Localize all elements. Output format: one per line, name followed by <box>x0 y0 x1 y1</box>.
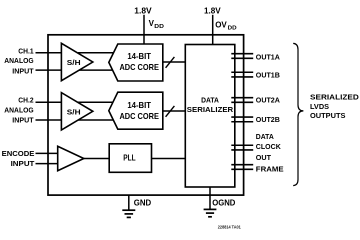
svg-text:228814 TA01: 228814 TA01 <box>218 224 242 229</box>
main block outline <box>48 35 244 195</box>
svg-text:S/H: S/H <box>67 58 81 67</box>
LVDS pair FRAME <box>231 165 253 170</box>
PLL block <box>109 144 151 173</box>
svg-text:1.8V: 1.8V <box>204 6 221 15</box>
OVDD supply wire <box>212 15 214 45</box>
bus slash ADC2 <box>166 106 175 117</box>
svg-text:PLL: PLL <box>123 154 135 163</box>
svg-text:INPUT: INPUT <box>11 161 36 168</box>
svg-text:INPUT: INPUT <box>12 117 34 124</box>
wire clock buffer to PLL <box>78 158 109 160</box>
svg-text:CLOCK: CLOCK <box>256 144 281 151</box>
svg-text:OUT2A: OUT2A <box>256 98 280 105</box>
svg-text:OV: OV <box>215 21 227 30</box>
svg-text:CH.1: CH.1 <box>18 48 33 55</box>
LVDS pair OUT1B <box>231 72 253 77</box>
wire CH.1 input - <box>36 69 64 71</box>
svg-text:OUT2B: OUT2B <box>256 117 280 124</box>
wire S/H1 to ADC1 - <box>78 69 114 71</box>
ADC core 2 (14-BIT ADC CORE) <box>109 92 163 129</box>
svg-text:GND: GND <box>134 199 152 208</box>
ground symbol GND <box>122 210 135 217</box>
S/H amplifier 1 <box>61 43 92 80</box>
LVDS pair OUT2A <box>231 98 253 103</box>
svg-text:FRAME: FRAME <box>256 167 284 174</box>
S/H amplifier 2 <box>61 93 92 130</box>
wire ENCODE input bottom <box>36 163 60 165</box>
svg-text:LVDS: LVDS <box>310 104 329 111</box>
svg-text:ANALOG: ANALOG <box>4 107 34 114</box>
svg-text:INPUT: INPUT <box>12 68 34 75</box>
svg-text:14-BIT: 14-BIT <box>127 51 151 61</box>
svg-text:OUTPUTS: OUTPUTS <box>310 113 346 120</box>
data serializer block <box>185 45 235 188</box>
svg-text:ADC CORE: ADC CORE <box>119 62 159 72</box>
LVDS pair CLOCK <box>231 145 253 150</box>
svg-text:S/H: S/H <box>67 107 81 116</box>
GND pin wire <box>128 195 130 210</box>
svg-text:OUT1B: OUT1B <box>256 72 280 79</box>
OGND pin wire <box>209 187 211 209</box>
svg-text:OGND: OGND <box>212 199 235 208</box>
svg-text:OUT: OUT <box>256 155 272 162</box>
label CH.1 ANALOG INPUT <box>4 48 34 75</box>
LVDS pair OUT2B <box>231 117 253 122</box>
wire CH.2 input - <box>36 119 64 121</box>
svg-text:DD: DD <box>154 24 164 30</box>
wire S/H2 to ADC2 - <box>78 119 114 121</box>
ADC core 1 (14-BIT ADC CORE) <box>109 44 163 81</box>
label CH.2 ANALOG INPUT <box>4 97 34 124</box>
svg-text:OUT1A: OUT1A <box>256 55 280 62</box>
wire ENCODE input top <box>36 152 60 154</box>
bus wire ADC1 to serializer <box>163 61 186 63</box>
label ENCODE INPUT <box>2 151 36 168</box>
svg-text:14-BIT: 14-BIT <box>127 100 151 110</box>
ground symbol OGND <box>204 209 217 216</box>
svg-text:SERIALIZED: SERIALIZED <box>310 95 359 102</box>
label DATA CLOCK OUT <box>256 134 281 162</box>
wire S/H2 to ADC2 + <box>78 101 114 103</box>
svg-text:ENCODE: ENCODE <box>2 151 35 158</box>
bus slash ADC1 <box>166 57 175 68</box>
wire S/H1 to ADC1 + <box>78 52 114 54</box>
wire CH.2 input + <box>36 101 64 103</box>
VDD supply wire <box>143 15 145 44</box>
brace for serialized LVDS outputs <box>293 43 303 185</box>
label OVDD <box>215 21 236 32</box>
svg-text:DATA: DATA <box>256 134 274 141</box>
clock buffer amplifier <box>58 146 84 170</box>
svg-text:ANALOG: ANALOG <box>4 58 34 65</box>
svg-text:DD: DD <box>228 26 237 32</box>
bus wire ADC2 to serializer <box>163 110 186 112</box>
svg-text:SERIALIZER: SERIALIZER <box>187 105 234 114</box>
svg-text:DATA: DATA <box>201 96 219 105</box>
label VDD <box>149 19 164 30</box>
wire PLL to serializer <box>152 158 186 160</box>
svg-text:CH.2: CH.2 <box>18 97 33 104</box>
svg-text:1.8V: 1.8V <box>134 6 152 15</box>
label SERIALIZED LVDS OUTPUTS <box>310 95 359 121</box>
wire CH.1 input + <box>36 52 64 54</box>
LVDS pair OUT1A <box>231 54 253 59</box>
svg-text:ADC CORE: ADC CORE <box>119 111 159 121</box>
